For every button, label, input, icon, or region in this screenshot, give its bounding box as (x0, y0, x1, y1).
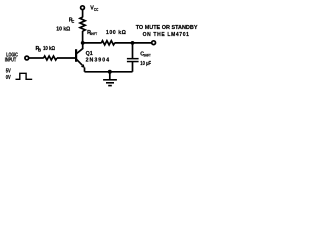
wire capacitor to rail (132, 62, 134, 72)
node B junction dot (131, 41, 135, 45)
svg-text:10 kΩ: 10 kΩ (56, 27, 71, 33)
svg-text:5V: 5V (6, 68, 11, 74)
resistor RC (80, 17, 85, 31)
svg-text:10 kΩ: 10 kΩ (43, 46, 56, 52)
Vcc terminal (81, 6, 85, 10)
svg-text:SHIFT: SHIFT (90, 32, 98, 36)
logic input terminal (25, 56, 29, 60)
svg-text:Q1: Q1 (86, 51, 93, 57)
wire input to Rb (29, 57, 44, 59)
svg-text:100 kΩ: 100 kΩ (106, 30, 127, 36)
svg-text:10 µF: 10 µF (140, 61, 151, 67)
svg-text:SHIFT: SHIFT (144, 54, 152, 58)
pulse waveform (16, 73, 33, 79)
svg-text:2N3904: 2N3904 (86, 58, 110, 64)
wire bottom rail (85, 71, 133, 73)
wire Rc to node A (82, 31, 84, 43)
svg-text:B: B (38, 47, 41, 52)
ground junction dot (108, 70, 112, 74)
svg-text:TO MUTE OR STANDBY: TO MUTE OR STANDBY (136, 25, 198, 31)
svg-text:C: C (71, 19, 74, 24)
svg-text:ON THE LM4701: ON THE LM4701 (143, 32, 190, 38)
resistor RB (44, 56, 57, 60)
svg-text:CC: CC (94, 7, 98, 12)
resistor RSHIFT (101, 41, 114, 45)
node A junction dot (81, 41, 85, 45)
output terminal (152, 41, 156, 45)
svg-text:0V: 0V (6, 75, 11, 81)
svg-text:INPUT: INPUT (5, 57, 17, 63)
capacitor CSHIFT (127, 58, 139, 60)
wire Vcc to Rc (82, 10, 84, 18)
wire Rshift to node B (115, 42, 152, 44)
ground (109, 72, 111, 80)
transistor Q1 (75, 49, 77, 62)
wire node B to capacitor (132, 43, 134, 59)
wire Rb to base (57, 57, 75, 59)
wire node A to Rshift (83, 42, 102, 44)
